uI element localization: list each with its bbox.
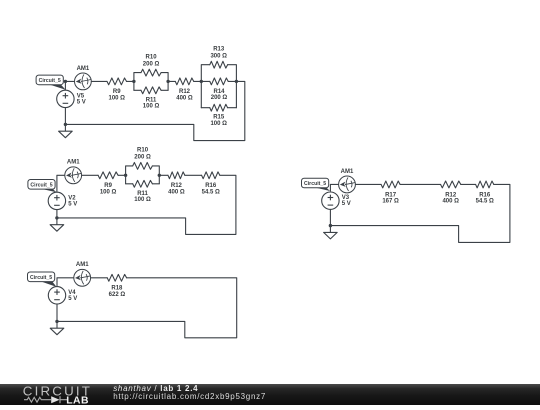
wire block1 to R12	[168, 80, 175, 82]
ammeter AM1 circuit 3	[74, 269, 91, 286]
R9 100 circuit 2 value label	[100, 183, 117, 195]
voltage source V4 5V	[48, 287, 65, 304]
node ground junction circuit 3	[55, 320, 58, 323]
wire node to V5 +	[64, 81, 66, 90]
wire return loop circuit 1	[65, 81, 244, 140]
node ground junction circuit 2	[55, 216, 58, 219]
label V2 value	[68, 195, 77, 207]
wire block left rail circuit 2	[126, 166, 133, 184]
wire V3 + to AM1	[330, 184, 338, 191]
R13 300 value label	[210, 47, 227, 60]
R16 54.5 circuit 4 value label	[476, 192, 494, 204]
wire V4 + to AM1	[57, 278, 74, 287]
R14 200 value label	[211, 89, 228, 101]
svg-text:400 Ω: 400 Ω	[168, 189, 185, 195]
logo resistor zigzag + diode	[24, 396, 68, 403]
voltage source V3 5V	[322, 192, 339, 209]
wire R12 to R16 circuit 2	[185, 174, 202, 176]
svg-text:LAB: LAB	[66, 396, 89, 406]
R10 200 circuit 2 value label	[134, 148, 151, 161]
wire V3 - to ground	[329, 209, 331, 225]
svg-text:200 Ω: 200 Ω	[211, 95, 228, 101]
label AM1	[341, 169, 354, 175]
voltage source V2 5V	[48, 192, 65, 209]
R17 167 value label	[382, 192, 399, 204]
R10 200 value label	[143, 54, 160, 67]
ammeter AM1 circuit 1	[75, 73, 92, 90]
wire block2 right rail	[228, 65, 237, 108]
wire R9 to block	[118, 174, 126, 176]
label AM1	[76, 262, 89, 268]
wire V2 - to ground	[56, 210, 58, 218]
wire to R11 circuit 2	[126, 183, 133, 185]
svg-text:R17: R17	[385, 192, 397, 198]
wire block1 right rail	[161, 73, 168, 91]
svg-text:400 Ω: 400 Ω	[442, 198, 459, 204]
wire to R14	[201, 80, 210, 82]
node parallel block left circuit 2	[124, 174, 127, 177]
node flag net Circuit_5 (circuit 2)	[28, 180, 57, 193]
node parallel block 2 right	[235, 80, 238, 83]
svg-text:R10: R10	[146, 54, 158, 60]
R12 400 circuit 1 value label	[176, 89, 193, 101]
wire R9 to parallel block	[127, 80, 134, 82]
ammeter AM1 circuit 2	[65, 167, 82, 184]
svg-text:R9: R9	[113, 89, 121, 95]
svg-text:622 Ω: 622 Ω	[109, 292, 126, 298]
svg-text:R12: R12	[179, 89, 191, 95]
label AM1	[77, 66, 90, 72]
resistor R18 622	[107, 274, 126, 281]
resistor R11 100	[141, 87, 161, 94]
resistor R16 54.5 circuit 4	[476, 181, 494, 188]
wire R12 to block2	[194, 80, 202, 82]
wire R11 to rail	[161, 89, 168, 91]
wire block2 left rail	[201, 65, 210, 108]
svg-text:167 Ω: 167 Ω	[382, 198, 399, 204]
svg-text:R13: R13	[213, 47, 225, 53]
wire R15 to rail	[228, 107, 237, 109]
svg-text:R14: R14	[213, 89, 225, 95]
wire block to R12 circuit 2	[159, 174, 168, 176]
svg-text:100 Ω: 100 Ω	[100, 189, 117, 195]
R12 400 circuit 2 value label	[168, 183, 185, 195]
wire block1 left rail	[134, 73, 141, 91]
svg-text:100 Ω: 100 Ω	[143, 104, 160, 110]
wire R11 to rail circuit 2	[152, 183, 159, 185]
resistor R17 167	[381, 181, 400, 188]
ground circuit 3	[50, 321, 64, 334]
resistor R15 100	[210, 104, 228, 111]
label V3 value	[342, 195, 351, 207]
node parallel block 2 left	[200, 80, 203, 83]
resistor R12 400 circuit 4	[441, 181, 461, 188]
R11 100 value label	[143, 98, 160, 110]
node junction circuit 1	[64, 80, 67, 83]
resistor R12 400 circuit 2	[168, 172, 185, 179]
wire R17 to R12 circuit 4	[400, 183, 441, 185]
wire to R11	[134, 89, 141, 91]
svg-text:5 V: 5 V	[68, 201, 77, 207]
resistor R11 100 circuit 2	[133, 180, 153, 187]
ammeter AM1 circuit 4	[339, 176, 356, 193]
node parallel block 1 left	[132, 80, 135, 83]
svg-text:Circuit_5: Circuit_5	[304, 181, 326, 187]
svg-text:AM1: AM1	[341, 169, 354, 175]
R18 622 value label	[109, 286, 126, 298]
wire node to AM1	[65, 80, 74, 82]
svg-text:Circuit_5: Circuit_5	[30, 182, 52, 188]
CircuitLab logo	[21, 384, 117, 410]
wire R14 to rail	[228, 80, 236, 82]
svg-text:AM1: AM1	[67, 160, 80, 166]
svg-text:5 V: 5 V	[342, 201, 351, 207]
R12 400 circuit 4 value label	[442, 192, 459, 204]
R15 100 value label	[210, 115, 227, 127]
ground circuit 4	[324, 226, 338, 239]
svg-text:R9: R9	[104, 183, 112, 189]
wire return loop circuit 4	[330, 184, 510, 242]
wire AM1 to R17	[355, 183, 381, 185]
resistor R10 200	[141, 69, 161, 76]
ground circuit 2	[50, 218, 64, 231]
svg-text:200 Ω: 200 Ω	[143, 61, 160, 67]
wire R12 to R16 circuit 4	[461, 183, 476, 185]
node parallel block right circuit 2	[158, 174, 161, 177]
label AM1	[67, 160, 80, 166]
R9 100 value label	[109, 89, 126, 101]
wire V5 - to ground	[64, 108, 66, 125]
R16 54.5 circuit 2 value label	[202, 183, 220, 195]
svg-text:R12: R12	[171, 183, 183, 189]
resistor R10 200 circuit 2	[133, 163, 153, 170]
svg-text:54.5 Ω: 54.5 Ω	[202, 189, 220, 195]
svg-text:R15: R15	[213, 115, 225, 121]
wire return loop circuit 2	[57, 175, 236, 234]
node flag net Circuit_5 (circuit 4)	[302, 178, 331, 191]
wire AM1 to R9	[82, 174, 99, 176]
svg-text:200 Ω: 200 Ω	[134, 155, 151, 161]
wire V2 + to AM1	[57, 175, 65, 192]
node parallel block 1 right	[166, 80, 169, 83]
R11 100 circuit 2 value label	[134, 191, 151, 203]
label V5 value	[77, 93, 86, 105]
resistor R13 300	[210, 61, 228, 68]
ground circuit 1	[59, 124, 73, 137]
svg-text:Circuit_5: Circuit_5	[30, 275, 52, 281]
node ground junction circuit 4	[329, 224, 332, 227]
node flag net Circuit_5 (circuit 1)	[36, 75, 66, 90]
svg-text:300 Ω: 300 Ω	[210, 54, 227, 60]
resistor R9 100	[107, 78, 127, 85]
voltage source V5 5V	[57, 90, 74, 107]
wire V4 - to ground	[56, 304, 58, 321]
svg-text:100 Ω: 100 Ω	[109, 95, 126, 101]
resistor R16 54.5 circuit 2	[202, 172, 220, 179]
wire to R15	[201, 107, 210, 109]
svg-text:AM1: AM1	[77, 66, 90, 72]
svg-text:R12: R12	[445, 192, 457, 198]
label V4 value	[68, 290, 77, 302]
svg-text:R16: R16	[479, 192, 491, 198]
resistor R9 100 circuit 2	[98, 172, 118, 179]
footer bar	[0, 384, 540, 405]
svg-text:R10: R10	[137, 148, 149, 154]
resistor R14 200	[210, 78, 228, 85]
node flag net Circuit_5 (circuit 3)	[28, 272, 57, 287]
svg-text:AM1: AM1	[76, 262, 89, 268]
svg-text:400 Ω: 400 Ω	[176, 95, 193, 101]
wire return loop circuit 3	[57, 278, 237, 338]
svg-text:R18: R18	[111, 286, 123, 292]
svg-text:100 Ω: 100 Ω	[210, 121, 227, 127]
wire AM1 to R18	[91, 277, 108, 279]
svg-text:5 V: 5 V	[77, 99, 86, 105]
node ground junction circuit 1	[64, 123, 67, 126]
svg-text:Circuit_5: Circuit_5	[39, 78, 61, 84]
wire block right rail circuit 2	[152, 166, 159, 184]
resistor R12 400 circuit 1	[175, 78, 193, 85]
svg-text:R16: R16	[205, 183, 217, 189]
svg-text:5 V: 5 V	[68, 296, 77, 302]
svg-text:54.5 Ω: 54.5 Ω	[476, 198, 494, 204]
wire AM1 to R9	[91, 80, 107, 82]
svg-text:100 Ω: 100 Ω	[134, 197, 151, 203]
